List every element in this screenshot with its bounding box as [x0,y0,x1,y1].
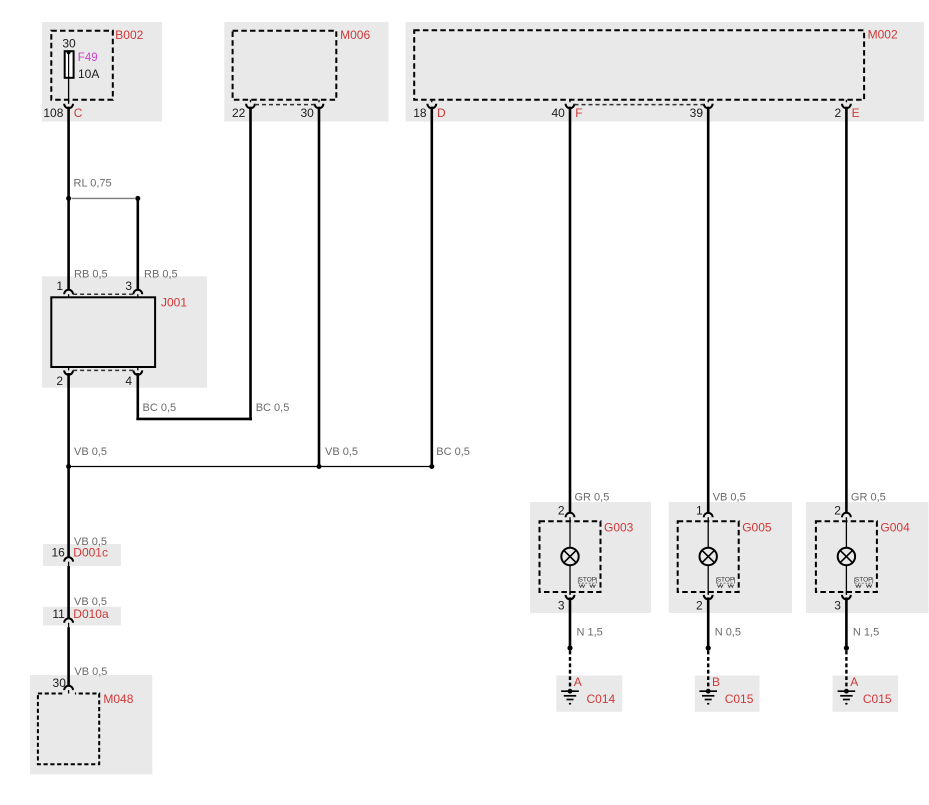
svg-text:N 1,5: N 1,5 [853,626,879,638]
svg-text:B: B [712,675,720,689]
svg-text:RL 0,75: RL 0,75 [74,178,112,190]
svg-text:1: 1 [696,504,703,518]
svg-text:1: 1 [56,279,63,293]
svg-text:C015: C015 [725,692,754,706]
svg-text:VB 0,5: VB 0,5 [325,446,358,458]
svg-text:40: 40 [551,106,565,120]
svg-text:RB 0,5: RB 0,5 [74,269,108,281]
svg-text:VB 0,5: VB 0,5 [74,446,107,458]
svg-text:F: F [575,106,582,120]
svg-text:N 0,5: N 0,5 [715,626,741,638]
svg-text:30: 30 [300,106,314,120]
svg-text:M002: M002 [868,28,898,42]
svg-text:E: E [852,106,860,120]
svg-text:4: 4 [125,374,132,388]
svg-text:M048: M048 [103,692,133,706]
svg-text:2: 2 [835,106,842,120]
svg-text:N 1,5: N 1,5 [577,626,603,638]
svg-text:C015: C015 [863,692,892,706]
svg-text:F49: F49 [78,52,98,64]
svg-text:D010a: D010a [73,607,109,621]
svg-text:3: 3 [558,599,565,613]
svg-text:30: 30 [62,37,76,51]
svg-text:11: 11 [52,607,65,621]
svg-text:RB 0,5: RB 0,5 [144,269,178,281]
svg-text:C014: C014 [587,692,616,706]
svg-text:18: 18 [413,106,427,120]
svg-text:STOP: STOP [855,577,873,584]
svg-text:BC 0,5: BC 0,5 [143,402,177,414]
svg-text:108: 108 [43,106,63,120]
svg-text:C: C [74,106,83,120]
svg-text:16: 16 [51,546,65,560]
svg-text:3: 3 [834,599,841,613]
svg-text:39: 39 [690,106,704,120]
svg-text:10A: 10A [78,67,99,81]
svg-text:2: 2 [696,599,703,613]
svg-text:2: 2 [558,504,565,518]
svg-text:G004: G004 [880,520,910,534]
svg-text:STOP: STOP [579,577,597,584]
svg-text:GR 0,5: GR 0,5 [575,492,610,504]
svg-text:3: 3 [125,279,132,293]
svg-text:D: D [437,106,446,120]
svg-text:B002: B002 [115,28,143,42]
svg-text:2: 2 [834,504,841,518]
svg-text:BC 0,5: BC 0,5 [256,402,290,414]
svg-text:J001: J001 [161,296,187,310]
svg-text:STOP: STOP [717,577,735,584]
svg-text:M006: M006 [340,28,370,42]
svg-text:A: A [850,675,858,689]
svg-text:BC 0,5: BC 0,5 [436,446,470,458]
svg-text:D001c: D001c [73,546,108,560]
svg-text:22: 22 [232,106,246,120]
svg-text:A: A [574,675,582,689]
svg-text:GR 0,5: GR 0,5 [851,492,886,504]
svg-text:G003: G003 [604,520,634,534]
svg-text:VB 0,5: VB 0,5 [74,666,107,678]
svg-text:G005: G005 [742,520,772,534]
svg-text:VB 0,5: VB 0,5 [713,492,746,504]
svg-text:2: 2 [56,374,63,388]
